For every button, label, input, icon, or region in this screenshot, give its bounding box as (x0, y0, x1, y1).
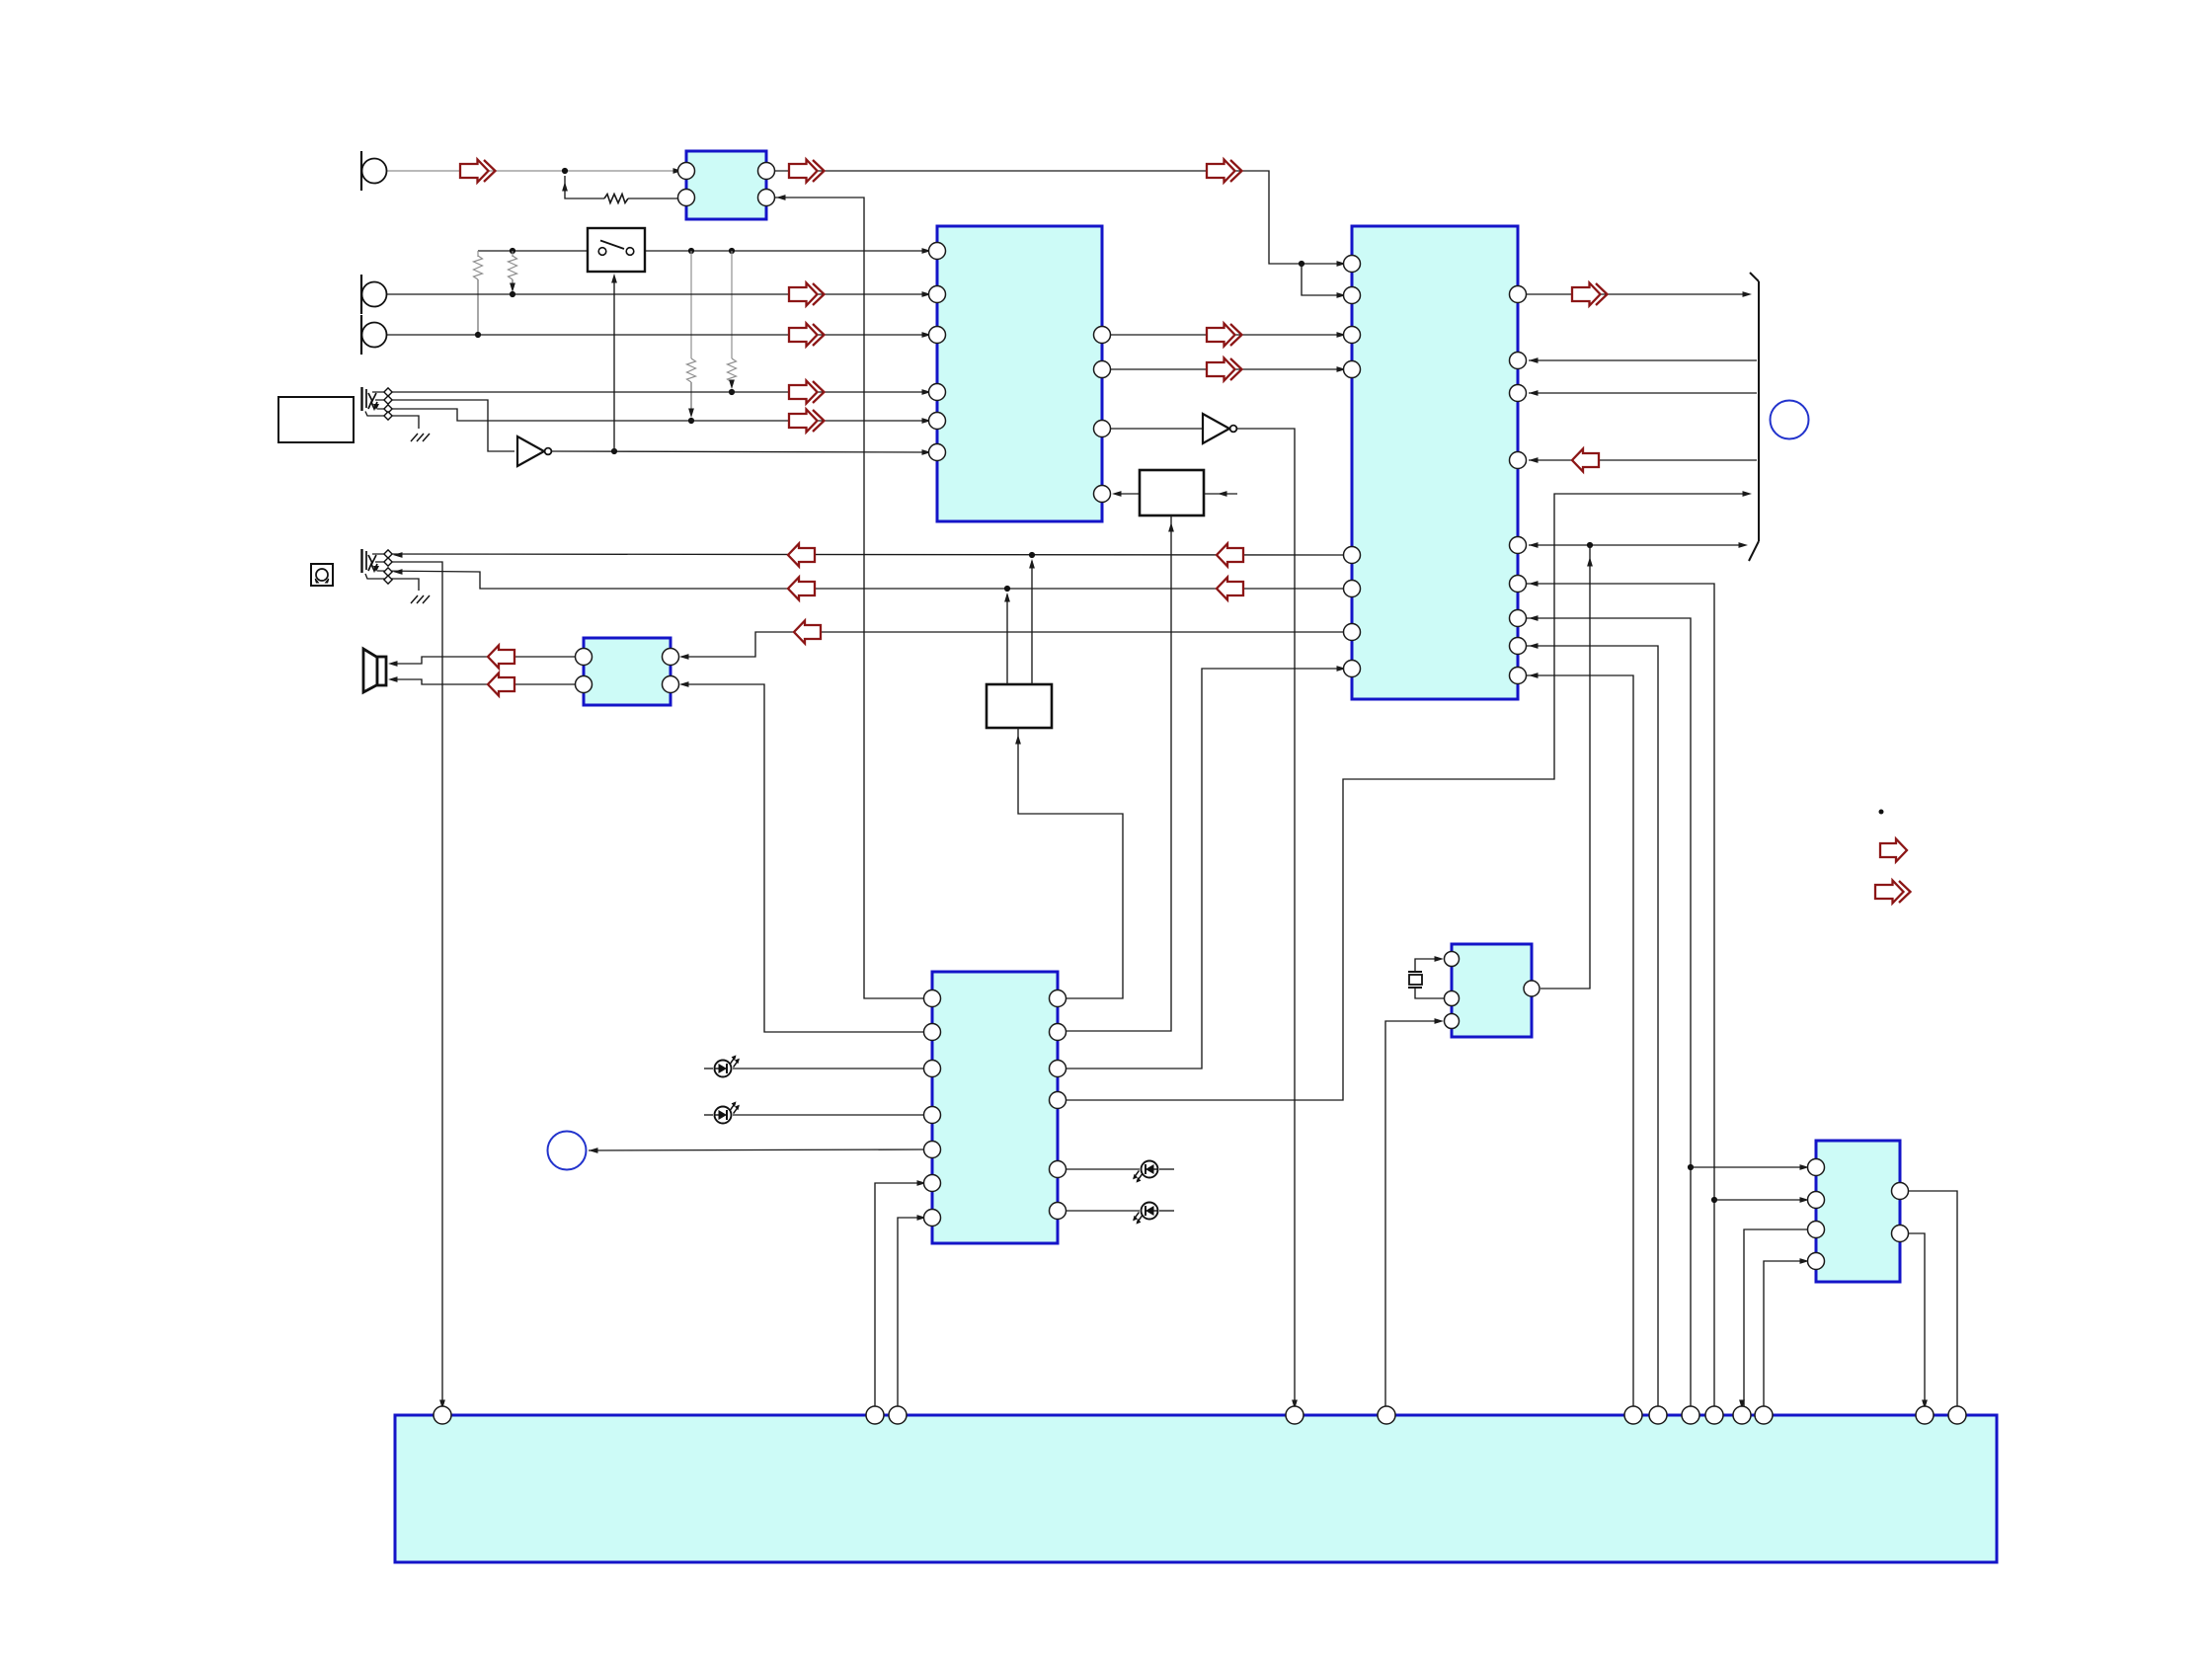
arrow into U101 pin4 (776, 195, 786, 200)
flow arrow J digital out (1572, 283, 1608, 306)
wire box B1 bottom to U501 (1066, 515, 1171, 1031)
wire to U801 pin L2 (1714, 1199, 1804, 1201)
arrow into U301 R3 (1529, 390, 1539, 396)
wire LED D103 stub (1159, 1168, 1174, 1170)
wire U901 to U801 pin L4 (1764, 1261, 1804, 1406)
wire U501 R6 stub (1058, 1210, 1140, 1212)
jack J101 mic (361, 151, 387, 191)
wire U301 R5 row (1529, 544, 1743, 546)
wire U801 R1 down to U901 (1900, 1191, 1957, 1406)
wire hp contact4 to ground (365, 574, 419, 591)
IC U201 preamp (937, 226, 1102, 521)
arrow into U201 pin6 (922, 449, 932, 455)
contact J104-2 (384, 396, 392, 404)
IC U801 interface (1816, 1141, 1900, 1282)
pins U601 (1445, 952, 1460, 1029)
wire junction down to resistor R101 row (565, 176, 604, 198)
LED D101 (715, 1055, 740, 1076)
arrow into U301 R5 (1529, 542, 1539, 548)
legend arrow double (1875, 881, 1911, 904)
wire U401 to speaker upper (392, 657, 575, 664)
arrow into U301 pin3 (1337, 332, 1347, 338)
legend dot (1879, 810, 1884, 815)
flow arrow H dac R (1207, 358, 1242, 381)
contact J105-2 (384, 558, 392, 566)
arrow into U301 R4 (1529, 457, 1539, 463)
ground G102 (411, 595, 430, 603)
legend arrow single (1880, 839, 1907, 862)
contact J104-4 (384, 412, 392, 420)
junction U801 row1 (1688, 1164, 1694, 1170)
junction sw row resistor R102 (510, 248, 515, 254)
arrow into U201 pin4 (922, 389, 932, 395)
wire LED D101 to U501 (733, 1068, 924, 1069)
wire trrs contact2 to inverter (375, 400, 514, 451)
wire U501 to node CN102 (589, 1149, 924, 1150)
junction sw row resistor R105 (729, 248, 735, 254)
arrow up into switch (611, 274, 617, 283)
white box B2 (mute) (987, 684, 1052, 728)
arrow into U501 pin L7 (917, 1215, 927, 1221)
arrow into U201 pin2 (922, 291, 932, 297)
wire hp contact2 down to U901 (375, 562, 442, 1406)
junction U301 R5 (1587, 542, 1593, 548)
junction jack1 row (562, 168, 568, 174)
arrow into U401 pin R1 (679, 654, 689, 660)
junction hp row1 (1029, 552, 1035, 558)
pins U901 top (434, 1406, 1966, 1424)
arrow into node CN102 (589, 1148, 598, 1153)
wire into box B1 right (1204, 493, 1237, 495)
wire B2 bottom to U501 pin R1 (1018, 728, 1123, 998)
wire R105 to row (731, 382, 733, 385)
wire U301 R6 down to U901 (1518, 584, 1714, 1406)
wire lead resistor R102 (477, 251, 479, 257)
flow arrow K hp L left (788, 544, 815, 567)
pins U801 left (1808, 1159, 1825, 1270)
pin U601 right (1524, 981, 1540, 996)
speaker SP101 (363, 649, 386, 692)
switch S101 (588, 228, 645, 272)
wire resistor R101 to U101 pin2 (628, 198, 686, 199)
wire trrs contact3 jog (377, 409, 926, 421)
wire switch row (478, 250, 589, 252)
arrow R105 into row (729, 380, 735, 390)
junction sw row resistor R104 (688, 248, 694, 254)
arrow into U801 pin L1 (1800, 1164, 1810, 1170)
flow arrow O amp in (794, 621, 821, 644)
flow arrow I rec out (1207, 160, 1242, 183)
arrow into U801 pin L2 (1800, 1197, 1810, 1203)
arrow up into R5 junction (1587, 557, 1593, 567)
wire U501 R4 to bus (1058, 494, 1747, 1100)
flow arrow G dac L (1207, 324, 1242, 347)
arrow into bus row500 (1743, 491, 1753, 497)
wire LED D101 stub (704, 1068, 713, 1069)
headphone icon (311, 564, 333, 586)
wire white box B1 to U201 pin R4 (1117, 493, 1140, 495)
contact J105-1 (384, 550, 392, 558)
flow arrow E mic2 L (789, 381, 825, 404)
flow arrow B mix out (789, 160, 825, 183)
white box B0 (mic unit) (278, 397, 354, 442)
junction R104 row (688, 418, 694, 424)
contact J105-3 (384, 568, 392, 576)
arrow up into hp row1 (1029, 559, 1035, 569)
arrow into bus row298 (1743, 291, 1753, 297)
flow arrow C line L (789, 283, 825, 306)
LED D102 (715, 1101, 740, 1123)
arrow R103 into jack2 row (510, 283, 515, 293)
arrow into U901 pin a (439, 1400, 445, 1410)
arrow up into B2 bottom (1015, 735, 1021, 745)
arrow into U301 R2 (1529, 357, 1539, 363)
pins U501 right (1050, 990, 1066, 1220)
arrow into U301 R8 (1529, 643, 1539, 649)
IC U501 system controller (932, 972, 1058, 1243)
flow arrow A mic1 (460, 160, 496, 183)
resistor R104 (687, 358, 696, 382)
pins U301 left (1344, 256, 1361, 677)
arrow into U201 pin3 (922, 332, 932, 338)
flow arrow M hp L mid (1217, 544, 1243, 567)
wire crystal to U601 pin1 (1415, 959, 1440, 972)
arrow into speaker+ (388, 661, 398, 667)
resistor R105 (728, 358, 737, 382)
wire bus to U301 R4 (1529, 459, 1757, 461)
resistor R103 (509, 256, 517, 279)
junction R102 jack3 row (475, 332, 481, 338)
connector bus bracket (1749, 273, 1759, 561)
flow arrow R ctrl in (1572, 449, 1599, 472)
contact J105-4 (384, 576, 392, 584)
pins U201 right (1094, 327, 1111, 503)
wire jack2 to U201 pin2 (387, 293, 926, 295)
wire U301 R7 down to U901 (1518, 618, 1691, 1406)
wire R104 to row (690, 382, 692, 414)
LED D103 (1133, 1161, 1157, 1183)
wire branch to U301 pin2 (1302, 264, 1343, 295)
junction R103 jack2 row (510, 291, 515, 297)
wire U201 out3 to inverter Q201 (1102, 428, 1202, 430)
junction inverter out to switch (611, 448, 617, 454)
wire U201 out2 to U301 (1102, 368, 1341, 370)
node CN101 (blue circle) (1771, 401, 1809, 439)
wire LED D102 stub (704, 1114, 713, 1116)
wire U301 R9 down to U901 (1518, 675, 1633, 1406)
arrow into U201 pin1 (922, 248, 932, 254)
flow arrow F mic2 R (789, 410, 825, 433)
contact J104-3 (384, 405, 392, 413)
wire U801 R2 down to U901 (1900, 1233, 1925, 1406)
arrow into U301 R9 (1529, 673, 1539, 678)
arrow into U601 pin3 (1435, 1018, 1445, 1024)
wire jack1 to U101 pin1 (387, 170, 677, 172)
junction U801 row2 (1711, 1197, 1717, 1203)
wire headphone row1 to U301 (372, 554, 1343, 555)
junction node U301 pin1 row (1299, 261, 1304, 267)
junction hp row3 (1004, 586, 1010, 592)
wire U901 to U601 pin3 (1385, 1021, 1440, 1406)
arrow into U301 pin4 (1337, 366, 1347, 372)
IC U301 DSP (1352, 226, 1518, 699)
wire lead resistor R105 (731, 251, 733, 358)
jack J104 headset (362, 387, 380, 411)
wire crystal to U601 pin2 (1415, 988, 1444, 998)
LED D104 (1133, 1203, 1157, 1225)
pins U201 left (929, 243, 946, 461)
wire jack3 to U201 pin3 (387, 334, 926, 336)
crystal X601 (1408, 972, 1422, 988)
arrow up into hp row3 (1004, 593, 1010, 602)
wire headphone row3 to U301 (377, 571, 1343, 589)
wire lead resistor R103 (512, 251, 513, 257)
ground G101 (411, 434, 430, 441)
wire U501 pin L6 from U901 (875, 1183, 921, 1406)
wire switch to U201 pin1 (643, 250, 926, 252)
wire U501 R3 to U301 pin L8 (1058, 669, 1341, 1069)
arrow up into box B1 bottom (1168, 522, 1174, 532)
wire trrs contact4 to ground (365, 412, 419, 430)
pins U401 (576, 649, 679, 693)
arrow into U201 pin R4 (1112, 491, 1122, 497)
wire trrs contact1 to U201 pin4 (372, 391, 926, 393)
wire B2 up to hp row3 (1006, 594, 1008, 684)
IC U601 clock generator (1452, 944, 1532, 1037)
arrow into U601 pin1 (1435, 956, 1445, 962)
arrow into U901 pin l (1739, 1400, 1745, 1410)
pins U501 left (924, 990, 941, 1227)
jack J102 line L (361, 275, 387, 314)
arrow into box B1 right side (1218, 491, 1227, 497)
wire U301 to U401 upper (681, 632, 1352, 657)
wire bus to U301 R2 (1529, 359, 1757, 361)
arrow into U901 pin f (1292, 1400, 1298, 1410)
arrow into U901 pin m (1922, 1400, 1928, 1410)
wire U401 to speaker lower (392, 679, 575, 684)
arrow into U101 pin1 (673, 168, 683, 174)
wire bus to U301 R3 (1529, 392, 1757, 394)
arrow R104 into row (688, 409, 694, 419)
arrow into U301 R6 (1529, 581, 1539, 587)
IC U101 input selector (686, 151, 766, 219)
wire U501 to U401 lower (681, 684, 924, 1032)
arrow into U401 pin R2 (679, 681, 689, 687)
wire LED D102 to U501 (733, 1114, 924, 1116)
inverter Q101 (517, 436, 551, 466)
wire U801 pin L3 down to U901 (1744, 1229, 1807, 1406)
pins U301 right (1510, 286, 1527, 684)
pins U101 (678, 163, 775, 206)
contact J104-1 (384, 388, 392, 396)
junction R105 row (729, 389, 735, 395)
wire to U801 pin L1 (1691, 1166, 1804, 1168)
flow arrow D line R (789, 324, 825, 347)
flow arrow P spk+ (488, 646, 514, 669)
wire junction down to U601 (1540, 545, 1590, 989)
wire junction up to switch (613, 277, 615, 451)
resistor R102 (474, 256, 483, 279)
arrow into U301 pin2 (1337, 292, 1347, 298)
wire B2 up to hp row1 (1031, 561, 1033, 684)
flow arrow Q spk- (488, 673, 514, 696)
wire U301 R8 down to U901 (1518, 646, 1658, 1406)
wire inverter out to U201 pin6 (552, 451, 926, 452)
wire Q201 out down to U901 (1237, 429, 1295, 1406)
arrow into speaker- (388, 676, 398, 682)
inverter Q201 (1203, 414, 1236, 443)
wire R102 to jack3 row (477, 279, 479, 335)
wire LED D104 stub (1159, 1210, 1174, 1212)
wire U301 R1 to bus (1518, 293, 1747, 295)
arrow into U501 pin L6 (917, 1180, 927, 1186)
arrow up into jack1 row junction (562, 182, 568, 192)
arrow into U301 pin L8 (1337, 666, 1347, 672)
IC U401 power amp (584, 638, 671, 705)
arrow into U301 R7 (1529, 615, 1539, 621)
jack J103 line R (361, 315, 387, 355)
resistor R101 (604, 195, 628, 203)
wire U501 pin L7 from U901 (898, 1218, 921, 1406)
node CN102 (blue circle) (548, 1132, 587, 1170)
white box B1 (reset) (1140, 470, 1204, 515)
jack J105 headphone (362, 549, 380, 573)
arrow into U201 pin5 (922, 418, 932, 424)
wire lead resistor R104 (690, 251, 692, 358)
arrow into bus row552 (1739, 542, 1749, 548)
wire U201 out1 to U301 (1102, 334, 1341, 336)
pins U801 right (1892, 1183, 1909, 1242)
arrow into U801 pin L4 (1800, 1258, 1810, 1264)
IC U901 main board (395, 1415, 1997, 1562)
wire U501 R5 stub (1058, 1168, 1140, 1170)
arrow into hp contact3 (393, 569, 403, 575)
arrow into U301 pin1 (1337, 261, 1347, 267)
arrow into hp contact1 (393, 552, 403, 558)
flow arrow L hp R left (788, 578, 815, 600)
flow arrow N hp R mid (1217, 578, 1243, 600)
wire U101 out row (766, 171, 1343, 264)
wire into U101 pin4 feedback (774, 198, 924, 998)
wire R103 to jack2 row (512, 279, 513, 289)
